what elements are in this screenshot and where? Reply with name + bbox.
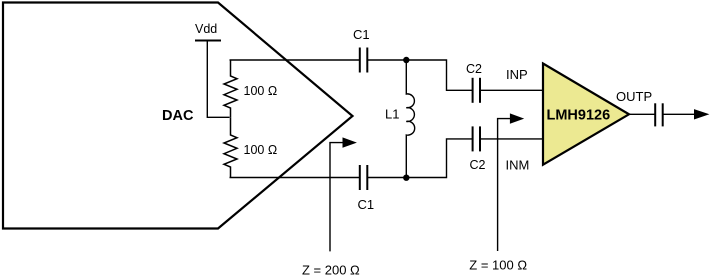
svg-text:C2: C2	[470, 158, 486, 172]
svg-text:INP: INP	[506, 67, 528, 82]
svg-text:C1: C1	[358, 197, 375, 212]
svg-text:Z = 100 Ω: Z = 100 Ω	[469, 258, 527, 273]
svg-text:100 Ω: 100 Ω	[244, 143, 278, 157]
svg-text:Vdd: Vdd	[195, 22, 217, 36]
svg-text:L1: L1	[385, 106, 399, 121]
svg-text:Z = 200 Ω: Z = 200 Ω	[302, 262, 360, 277]
svg-text:C1: C1	[353, 27, 370, 42]
svg-text:INM: INM	[506, 157, 530, 172]
svg-text:OUTP: OUTP	[616, 89, 652, 104]
svg-text:DAC: DAC	[162, 108, 194, 124]
svg-text:100 Ω: 100 Ω	[244, 84, 278, 98]
svg-text:C2: C2	[466, 62, 482, 76]
svg-text:LMH9126: LMH9126	[547, 107, 611, 123]
